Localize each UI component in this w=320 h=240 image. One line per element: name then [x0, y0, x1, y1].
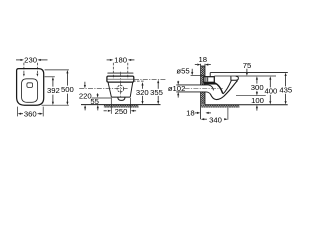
dimension 340: right extension tick — [227, 108, 229, 120]
wall left edge line extended down to 340 dimension — [200, 64, 202, 119]
svg-text:75: 75 — [243, 61, 252, 70]
dimension 355: vertical line with arrows — [157, 83, 159, 89]
dimension 250: right arrow — [133, 110, 136, 112]
dimension 400: vertical line with arrows — [269, 80, 271, 88]
svg-text:320: 320 — [136, 88, 149, 97]
front view: vertical centerline — [119, 72, 121, 98]
dimension 220: upper arrow pointing at centerline — [84, 82, 86, 86]
dimension 392: vertical line with arrows — [52, 80, 54, 87]
dimension 500: vertical line with arrows — [66, 73, 68, 86]
wall hatched band — [201, 66, 205, 105]
dimension 180: left dashed extension line — [112, 63, 114, 79]
svg-text:ø55: ø55 — [176, 67, 189, 76]
dimension 250: left extension tick — [110, 98, 112, 114]
side view: seat level line extending to 400 dimension — [214, 75, 276, 77]
svg-text:392: 392 — [47, 86, 60, 95]
dimension 18 top: left arrow — [195, 64, 198, 66]
dimension 180: right arrow — [131, 59, 135, 61]
plan view: pan outer outline — [17, 69, 44, 106]
svg-text:18: 18 — [199, 55, 208, 64]
white gap for outlet pipe through wall — [200, 85, 206, 92]
dimension 180: left arrow — [107, 59, 111, 61]
front view ground line — [81, 104, 161, 106]
svg-text:300: 300 — [251, 83, 264, 92]
dimension 360: right extension tick — [42, 107, 44, 117]
side view: inlet spigot top extension line for diameter 55 — [191, 75, 204, 77]
front view: body left side — [108, 83, 111, 98]
svg-text:ø102: ø102 — [168, 84, 186, 93]
inlet spigot box — [204, 77, 214, 83]
dimension 435: vertical line with arrows — [285, 76, 287, 87]
plan view: inner bowl rim — [22, 79, 38, 103]
inlet spigot internal lines — [205, 77, 207, 81]
side view: rim nose box with rounded end — [231, 76, 239, 80]
front view: rim and seat block — [107, 76, 134, 82]
flush channel from spigot to bowl (dark junction) — [204, 83, 216, 85]
dimension 230: right extension dashed line with arrow — [36, 63, 38, 74]
dimension 320: vertical line with arrows — [142, 85, 144, 89]
dimension 230: right arrow — [40, 59, 47, 61]
svg-text:100: 100 — [251, 96, 264, 105]
dimension 220: lower arrow pointing up at ground — [84, 107, 86, 110]
dimension 230: left arrow — [16, 59, 21, 61]
side view: bowl outer underside profile from trap up to nose — [224, 81, 238, 97]
side view: bowl interior slope down to trap vee — [223, 81, 231, 94]
extension line for 392 at bowl top level — [45, 76, 55, 78]
outlet pipe top line with weir curve into trap — [176, 85, 213, 91]
extension line for 100 at underside level — [236, 95, 266, 97]
dimension 18 top: right arrow — [208, 64, 211, 66]
front view: fixing hole circle — [117, 85, 124, 92]
wall right edge (face) — [204, 64, 206, 105]
front view ground hatch — [104, 105, 139, 108]
dimension 75: arrow pointing down at seat level line — [246, 69, 248, 74]
front view: bottom outlet semi-oval bulge — [118, 97, 125, 100]
dimension 18 bottom: left arrow pointing right at wall — [195, 112, 198, 114]
dimension 340: dimension line with arrows — [204, 118, 207, 120]
dimension 360: left extension tick — [16, 107, 18, 117]
floor hatch strip — [201, 105, 240, 108]
diameter 55 arrow — [191, 69, 193, 73]
ground line of side view — [205, 104, 288, 106]
dimension 55: lower arrow — [97, 107, 99, 110]
dimension 100: lower arrow below ground — [256, 107, 258, 110]
wall top edge — [201, 65, 205, 67]
svg-text:340: 340 — [209, 116, 222, 125]
bowl back slope from flush duct down to trap — [214, 83, 223, 94]
dimension 18 bottom: right arrow pointing left at wall face — [208, 112, 211, 114]
dash-dot reference line for 355 at seat level — [134, 78, 166, 80]
front view: seat/pan seam line — [107, 78, 134, 80]
outlet centerline dash-dot — [185, 88, 223, 90]
front view: body right side — [130, 83, 133, 98]
diameter 102 upper arrow — [177, 81, 179, 83]
side view: rim top edge with extension to 435 dimension — [210, 72, 288, 74]
dimension 250: right extension tick — [130, 98, 132, 114]
extension line for 500 at pan top level — [45, 69, 69, 71]
front view: body flat bottom edge — [111, 96, 131, 98]
diameter 102 lower arrow — [177, 95, 179, 98]
front view: seat lid top edge — [108, 72, 133, 74]
svg-text:355: 355 — [150, 88, 163, 97]
svg-text:250: 250 — [115, 107, 128, 116]
shared bottom extension line for 392 and 500 — [42, 104, 69, 106]
dimension 250: left arrow — [104, 110, 107, 112]
svg-text:180: 180 — [114, 56, 127, 65]
svg-text:435: 435 — [279, 86, 292, 95]
dashed reference line for 320 at rim bottom level — [133, 80, 144, 82]
svg-text:500: 500 — [61, 85, 74, 94]
svg-text:230: 230 — [24, 56, 37, 65]
plan view: flush hole — [27, 83, 33, 88]
dimension 55: upper arrow — [97, 93, 99, 95]
dimension 55: top reference line — [92, 97, 112, 99]
dimension 360: dimension line with arrows — [21, 113, 23, 115]
svg-text:360: 360 — [24, 109, 37, 118]
front view: horizontal centerline through fixing hole — [79, 88, 127, 90]
svg-text:18: 18 — [186, 109, 195, 118]
side view: rim back vertical above spigot — [209, 73, 211, 77]
dimension 180: right dashed extension line — [127, 63, 129, 79]
trap bottom U curve — [210, 94, 224, 100]
outlet pipe bottom line curving into trap bottom — [176, 92, 210, 94]
dimension 230: left extension dashed line with arrow — [23, 63, 25, 74]
dimension 300: vertical line with arrows — [256, 80, 258, 84]
svg-text:400: 400 — [264, 87, 277, 96]
